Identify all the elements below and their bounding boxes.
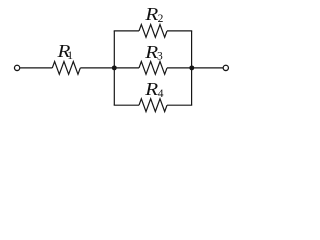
node B (right junction dot): [189, 65, 194, 70]
node A (left junction dot): [112, 65, 117, 70]
wire: R1 to node A: [80, 67, 114, 69]
label R3: [144, 42, 163, 63]
wire: left parallel bus (vertical): [113, 31, 115, 105]
svg-text:2: 2: [158, 13, 164, 25]
wire: node B to right terminal: [192, 67, 224, 69]
wire: bottom branch left lead: [114, 104, 139, 106]
label R2: [144, 4, 163, 25]
svg-text:R: R: [144, 4, 158, 24]
wire: left terminal to R1: [20, 67, 52, 69]
wire: top branch left lead: [114, 30, 139, 32]
resistor R4: [139, 99, 167, 112]
label R4: [144, 79, 164, 100]
resistor R3: [139, 62, 167, 75]
label R1: [56, 41, 73, 62]
wire: bottom branch right lead: [167, 104, 192, 106]
svg-text:1: 1: [67, 50, 73, 62]
wire: right parallel bus (vertical): [191, 31, 193, 105]
wire: middle branch left lead: [114, 67, 139, 69]
wire: top branch right lead: [167, 30, 192, 32]
wire: middle branch right lead: [167, 67, 192, 69]
svg-text:3: 3: [157, 51, 163, 63]
resistor R2: [139, 25, 167, 38]
svg-text:4: 4: [158, 88, 164, 100]
resistor R1: [52, 62, 80, 75]
left terminal: [14, 65, 19, 70]
right terminal: [223, 65, 228, 70]
svg-text:R: R: [144, 79, 158, 99]
